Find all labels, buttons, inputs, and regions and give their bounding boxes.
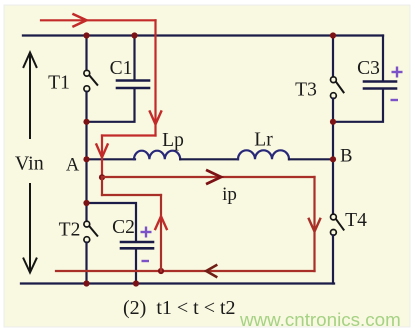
transistor T4 (switch symbol) [331, 214, 344, 235]
wire: C1 branch top (rail down to C1) [133, 36, 135, 80]
polarity + of C2 [141, 227, 152, 238]
wire: C1 bottom to left leg [87, 90, 135, 122]
wire: left leg T1 to node A [85, 92, 87, 160]
red arrow down on loop right vertical [309, 219, 320, 232]
svg-text:Lr: Lr [254, 130, 273, 151]
wire: right leg T4 to bottom rail [332, 235, 334, 283]
red arrow right on top path [74, 14, 87, 26]
svg-text:B: B [340, 147, 352, 167]
node: junction dot top rail / T1 [83, 32, 89, 38]
capacitor C1 [117, 81, 149, 89]
wire: red branch up beside C2 [160, 195, 162, 271]
svg-text:A: A [66, 156, 80, 176]
node B junction dot [330, 156, 336, 162]
wire: red loop right vertical [313, 177, 315, 271]
wire: C2 bottom to bottom rail [135, 250, 137, 284]
wire: right leg node B to T4 [332, 159, 334, 214]
wire: red source path top horizontal [41, 19, 156, 21]
svg-text:T3: T3 [295, 80, 317, 101]
svg-text:Vin: Vin [15, 153, 44, 175]
capacitor C2 [121, 242, 153, 248]
transistor T2 (switch symbol) [84, 221, 97, 242]
polarity - of C3 [391, 99, 399, 101]
wire: right leg upper (rail to T3) [332, 36, 334, 77]
red arrow right on ip line [207, 171, 221, 184]
Vin measurement arrow down [24, 184, 37, 273]
red arrow up beside C2 [155, 216, 166, 229]
svg-text:C2: C2 [112, 217, 135, 238]
polarity + of C3 [392, 67, 403, 78]
svg-text:(2) t1 < t < t2: (2) t1 < t < t2 [123, 297, 236, 319]
inductor Lr [238, 150, 289, 159]
svg-text:T2: T2 [59, 220, 81, 241]
wire: red path horizontal into node A [102, 134, 156, 136]
svg-text:Lp: Lp [162, 130, 184, 151]
svg-text:www.cntronics.com: www.cntronics.com [239, 309, 401, 330]
svg-text:T1: T1 [48, 73, 70, 94]
wire: top rail [23, 34, 383, 36]
node: junction dot top rail / C1 [131, 32, 137, 38]
node: red junction on bottom red line [158, 268, 164, 274]
wire: red branch horizontal to A-junction [102, 194, 161, 196]
wire: C2 branch top (left leg to C2) [87, 203, 137, 241]
node: junction dot C1 bottom / left leg [83, 119, 89, 125]
svg-text:C1: C1 [110, 58, 133, 79]
red arrow left on loop bottom [206, 265, 216, 276]
wire: Lp to Lr [180, 158, 238, 160]
wire: left leg T2 to bottom rail [85, 243, 87, 284]
wire: bottom rail [21, 282, 334, 284]
Vin measurement arrow up [24, 53, 37, 139]
wire: C3 branch top (rail corner down to C3) [382, 36, 384, 81]
svg-text:C3: C3 [357, 58, 380, 79]
node: junction dot bottom rail / C2 [133, 280, 139, 286]
svg-text:T4: T4 [345, 210, 367, 231]
wire: red path right vertical beside C1 [154, 20, 156, 135]
wire: node A to Lp [87, 158, 136, 160]
inductor Lp [134, 151, 180, 160]
wire: red loop bottom horizontal [56, 270, 315, 272]
wire: red primary current line (ip) horizontal [102, 176, 315, 178]
wire: right leg T3 to node B [332, 99, 334, 160]
node: junction dot C3 bottom / right leg [330, 119, 336, 125]
transistor T3 (switch symbol) [331, 77, 344, 99]
red arrow down into node A [96, 145, 107, 158]
polarity - of C2 [142, 260, 150, 262]
transistor T1 (switch symbol) [84, 70, 97, 91]
node A junction dot [83, 156, 89, 162]
node: red junction below A [99, 174, 105, 180]
red arrow down beside C1 [150, 112, 161, 125]
wire: red branch vertical joining junction below A [101, 177, 103, 195]
capacitor C3 [364, 82, 396, 89]
svg-text:ip: ip [222, 184, 237, 205]
node: junction dot bottom rail / T2 [83, 280, 89, 286]
wire: left leg upper (rail to T1) [85, 36, 87, 71]
wire: Lr to node B [289, 158, 333, 160]
wire: red path vertical down to node A [101, 136, 103, 178]
node: junction dot C2 top / left leg [83, 200, 89, 206]
node: junction dot top rail / T3 [330, 32, 336, 38]
wire: C3 bottom to right leg [333, 90, 383, 122]
wire: left leg node A to T2 [85, 159, 87, 221]
